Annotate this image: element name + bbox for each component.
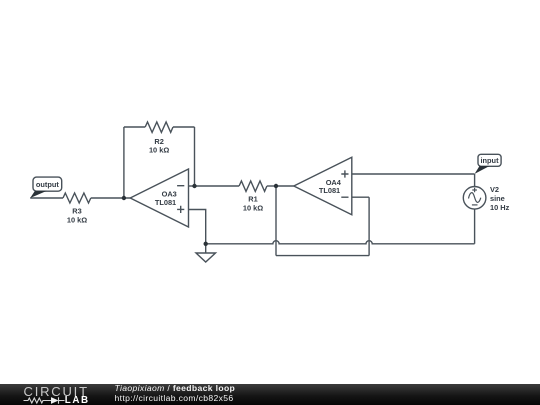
resistor R3 xyxy=(63,193,91,203)
svg-text:TL081: TL081 xyxy=(155,198,176,207)
svg-text:output: output xyxy=(36,180,60,189)
svg-text:TL081: TL081 xyxy=(319,186,340,195)
svg-text:10 kΩ: 10 kΩ xyxy=(243,204,263,213)
resistor R2 xyxy=(145,122,173,132)
wire OA3 plus pin xyxy=(189,210,206,244)
wire ground stub xyxy=(205,244,207,253)
svg-text:R1: R1 xyxy=(248,194,257,203)
OA4 plus mark xyxy=(341,170,348,177)
node A junction xyxy=(122,196,126,200)
flag output tail xyxy=(30,191,47,198)
bottom credit bar xyxy=(0,384,540,405)
wire V2 bottom xyxy=(474,209,476,244)
wire feedback bottom xyxy=(276,255,369,257)
wire feedback right vertical xyxy=(368,197,370,255)
OA4 minus mark xyxy=(341,196,348,198)
wire R1 to node C xyxy=(267,185,276,187)
svg-text:10 kΩ: 10 kΩ xyxy=(149,145,169,154)
wire R3 to node A xyxy=(91,197,130,199)
wire R2 top right xyxy=(173,126,195,128)
resistor R1 xyxy=(239,181,267,191)
wire OA4 plus pin to input node xyxy=(352,173,475,175)
wire R2 right vertical xyxy=(194,127,196,186)
V2 minus xyxy=(472,204,478,206)
wire R2 top left xyxy=(124,126,145,128)
OA3 plus mark xyxy=(177,206,184,213)
svg-text:V2: V2 xyxy=(490,185,499,194)
logo resistor-diode motif xyxy=(24,397,65,403)
wire node C to OA4 xyxy=(276,185,294,187)
flag input box xyxy=(478,154,501,166)
source V2 xyxy=(463,187,486,210)
svg-text:10 Hz: 10 Hz xyxy=(490,203,510,212)
wire OA3 minus pin xyxy=(189,185,195,187)
ground xyxy=(196,253,216,262)
OA3 minus mark xyxy=(177,185,184,187)
wire OA4 minus pin xyxy=(352,196,369,198)
V2 plus xyxy=(472,188,477,193)
wire node B to R1 xyxy=(195,185,240,187)
logo diode xyxy=(51,397,59,404)
svg-text:sine: sine xyxy=(490,194,505,203)
wire bottom rail with hops xyxy=(206,241,475,244)
op-amp OA3 xyxy=(130,169,188,227)
wire feedback left vertical xyxy=(275,186,277,256)
node B junction xyxy=(192,184,196,188)
V2 sine xyxy=(469,193,481,203)
ground junction xyxy=(204,242,208,246)
node C junction xyxy=(274,184,278,188)
flag input tail xyxy=(475,166,490,174)
wire V2 top xyxy=(474,174,476,187)
svg-text:R3: R3 xyxy=(72,206,81,215)
svg-text:10 kΩ: 10 kΩ xyxy=(67,216,87,225)
op-amp OA4 xyxy=(294,157,352,214)
wire R2 left vertical xyxy=(123,127,125,198)
svg-text:input: input xyxy=(480,156,499,165)
flag output box xyxy=(33,177,62,191)
wire output row left xyxy=(30,197,63,199)
